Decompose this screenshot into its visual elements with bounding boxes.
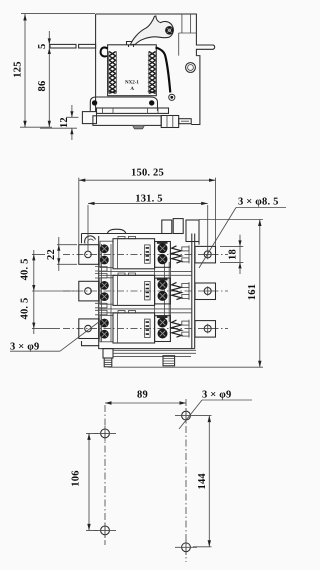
svg-text:144: 144 <box>197 473 208 490</box>
svg-text:22: 22 <box>46 249 57 260</box>
svg-text:40. 5: 40. 5 <box>20 258 31 280</box>
svg-text:131. 5: 131. 5 <box>135 193 162 204</box>
svg-text:40. 5: 40. 5 <box>20 298 31 320</box>
svg-text:NX2-1: NX2-1 <box>125 80 139 86</box>
svg-text:3 × φ8. 5: 3 × φ8. 5 <box>238 196 279 207</box>
svg-text:106: 106 <box>71 470 82 486</box>
svg-text:A: A <box>130 86 134 92</box>
svg-text:12: 12 <box>59 117 70 128</box>
svg-text:18: 18 <box>228 249 239 260</box>
svg-text:161: 161 <box>247 284 258 300</box>
svg-text:3 × φ9: 3 × φ9 <box>202 390 232 401</box>
svg-text:150. 25: 150. 25 <box>131 168 164 179</box>
svg-text:86: 86 <box>37 81 48 92</box>
svg-text:5: 5 <box>37 44 48 49</box>
svg-text:125: 125 <box>12 61 23 77</box>
svg-text:89: 89 <box>137 390 148 401</box>
